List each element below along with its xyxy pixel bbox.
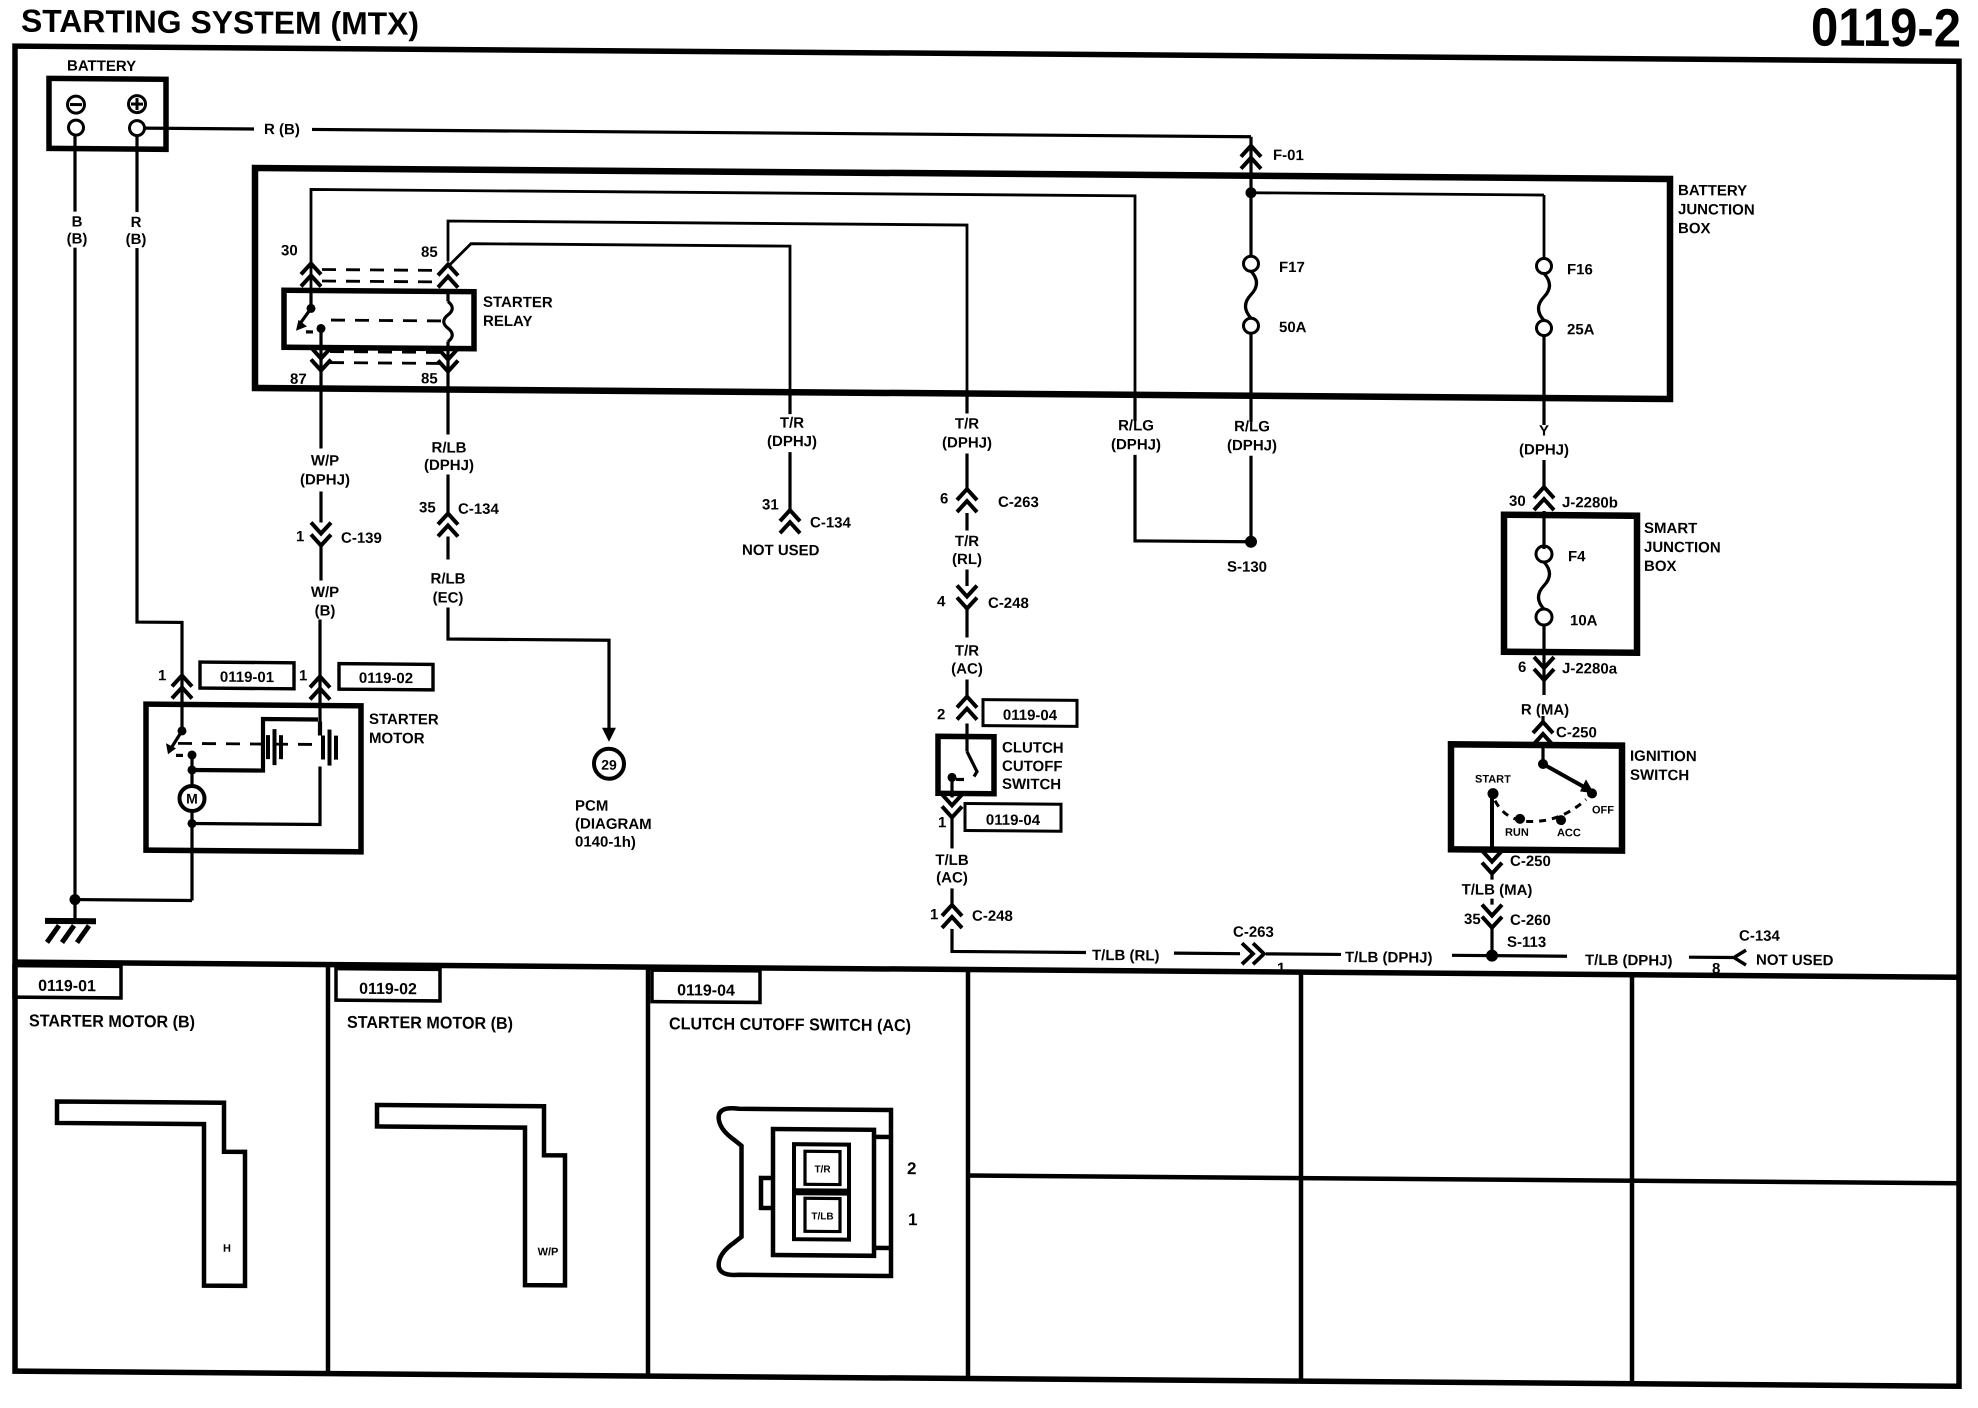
svg-text:T/R: T/R [955,642,979,659]
svg-text:0119-02: 0119-02 [359,670,413,687]
svg-text:(DPHJ): (DPHJ) [300,471,350,488]
svg-text:STARTER: STARTER [483,294,553,312]
svg-text:0119-04: 0119-04 [677,982,735,999]
wire C-139 to W/P (B) label [319,546,322,581]
svg-text:1: 1 [158,667,166,684]
svg-text:4: 4 [937,593,946,610]
connector view 0119-01: starter motor terminal [57,1101,245,1285]
wire into smart junction box [1542,511,1545,549]
svg-text:C-263: C-263 [1233,924,1274,941]
wire contact to motor branch [190,755,193,770]
svg-text:(AC): (AC) [951,660,983,677]
wire L1: relay pin30 feed to R/LG left drop [311,189,1135,394]
ignition START position [1488,788,1499,799]
battery negative terminal [68,96,85,113]
relay contact from pin 30 [309,290,312,308]
connector C-134 pin 31 (not used) [780,510,800,533]
pull-in winding bars [323,730,336,766]
svg-text:T/LB (DPHJ): T/LB (DPHJ) [1345,949,1432,967]
battery post (positive) [130,121,145,136]
connector right tabs [874,1135,891,1140]
connector inner body [773,1129,874,1256]
svg-text:RUN: RUN [1505,827,1529,839]
wire motor to ground exit [190,811,193,901]
svg-text:SWITCH: SWITCH [1630,767,1689,784]
ground junction node [70,894,81,905]
dashed connector lines below relay [330,350,440,354]
svg-text:IGNITION: IGNITION [1630,748,1697,766]
connector view 0119-02: starter motor terminal [377,1105,565,1285]
cavity T/LB outer [794,1193,849,1239]
relay coil [444,301,453,341]
svg-text:(B): (B) [315,602,336,619]
starter solenoid contact dot pin1 [178,726,187,735]
fuse F4 10A [1536,546,1598,629]
tab 0119-02 [336,969,440,1001]
svg-text:1: 1 [938,814,946,831]
wire label to C-248 pin 1 [950,888,953,905]
svg-text:STARTER: STARTER [369,711,439,729]
svg-text:Y: Y [1539,423,1549,440]
wire C-134 to R/LB (EC) label [446,536,449,559]
cavity T/R inner [805,1151,840,1184]
starter contact dash and dot [176,754,186,757]
svg-text:6: 6 [940,490,948,507]
svg-text:C-250: C-250 [1556,724,1597,741]
connector C-263 pin 1 (inline, pointing right) [1242,943,1264,964]
ignition ACC position [1556,815,1566,825]
svg-text:CLUTCH CUTOFF SWITCH (AC): CLUTCH CUTOFF SWITCH (AC) [669,1014,911,1035]
svg-text:R (MA): R (MA) [1521,701,1569,718]
svg-text:0119-01: 0119-01 [38,978,96,995]
wire branch down to fuse F16 [1543,195,1546,259]
grid row divider (right cells) [968,1176,1959,1184]
svg-text:F-01: F-01 [1273,147,1304,164]
clutch switch contact arm [967,752,977,777]
svg-text:PCM: PCM [575,797,608,814]
svg-text:(DIAGRAM: (DIAGRAM [575,815,652,833]
wire R/LB (DPHJ) below junction box [446,389,449,434]
wire down to T/LB run [952,929,1086,953]
svg-text:(B): (B) [126,231,147,248]
svg-text:31: 31 [762,496,779,513]
ignition pivot [1538,759,1548,769]
svg-text:C-263: C-263 [998,494,1039,511]
wire motor bottom to winding return [192,765,320,824]
wire drop to F-01 [1249,137,1252,177]
ground symbol [45,899,96,942]
svg-text:6: 6 [1518,659,1526,676]
svg-text:J-2280a: J-2280a [1562,660,1618,677]
PCM terminal circle 29 [594,749,624,779]
grid column divider 5 [1630,975,1635,1384]
motor M [180,786,205,811]
wire C-263 to T/R (RL) label [965,513,968,531]
wire label to C-134 pin 31 [788,452,791,510]
wire W/P (B) down to starter motor pin [318,619,321,676]
wire to R (MA) label [1542,680,1545,695]
svg-text:85: 85 [421,370,438,387]
connector-view grid top line [15,962,1959,977]
battery [49,57,166,149]
svg-text:C-250: C-250 [1510,853,1551,870]
svg-text:F16: F16 [1567,261,1593,278]
svg-text:M: M [186,790,198,806]
dashed connector lines above relay [322,268,440,272]
wire relay 85 to box bottom [446,348,449,389]
svg-text:(EC): (EC) [433,589,464,606]
svg-text:0119-2: 0119-2 [1811,0,1961,59]
svg-text:R: R [131,214,142,231]
wire to S-130 [1135,455,1251,542]
connector view 0119-04: clutch cutoff switch housing [719,1108,891,1276]
connector C-139 pin 1 [311,522,331,545]
splice S-113 [1486,950,1498,962]
svg-text:50A: 50A [1279,319,1307,336]
starter motor [146,704,361,852]
wire to T/LB (AC) label [950,817,953,848]
svg-text:(AC): (AC) [936,869,968,886]
svg-text:STARTER MOTOR (B): STARTER MOTOR (B) [347,1013,513,1033]
fuse F16 25A [1537,258,1595,338]
wire label to C-263 [965,454,968,490]
wire START down through box [1490,798,1494,852]
connector F-01 [1241,146,1261,169]
svg-text:F4: F4 [1568,548,1586,565]
wire F17 to box bottom (R/LG right) [1249,333,1252,396]
wire R/LG (DPHJ) right drop below box [1249,396,1252,422]
svg-text:1: 1 [299,667,307,684]
svg-text:J-2280b: J-2280b [1562,494,1618,511]
starter relay [284,290,474,348]
svg-text:T/LB (RL): T/LB (RL) [1092,947,1159,965]
svg-text:25A: 25A [1567,321,1595,338]
ignition rotor arm to OFF [1543,764,1583,786]
svg-text:NOT USED: NOT USED [742,542,820,560]
svg-text:BOX: BOX [1644,558,1677,575]
cavity T/R outer [794,1144,849,1190]
tab 0119-04 [652,970,760,1002]
svg-text:STARTER MOTOR (B): STARTER MOTOR (B) [29,1011,195,1031]
wire relay 87 to box bottom [319,348,322,389]
wire label to C-250 [1541,716,1544,722]
svg-text:RELAY: RELAY [483,313,532,330]
wire switch to lower 0119-04 connector [950,777,953,797]
svg-text:C-134: C-134 [1739,928,1781,945]
connector chevrons relay pin 30 [301,263,321,286]
svg-text:C-139: C-139 [341,530,382,547]
svg-text:STARTING SYSTEM (MTX): STARTING SYSTEM (MTX) [21,3,419,42]
svg-text:R/LG: R/LG [1118,417,1154,434]
svg-text:C-134: C-134 [810,514,852,531]
connector C-248 pin 4 [957,585,977,608]
svg-text:C-248: C-248 [972,908,1013,925]
wire to T/LB (MA) label [1490,874,1493,880]
svg-text:(DPHJ): (DPHJ) [1227,437,1277,454]
wire label to 0119-04 connector [965,680,968,700]
wire R (B) battery positive down to starter feed [135,135,138,212]
svg-text:C-260: C-260 [1510,912,1551,929]
svg-text:T/R: T/R [780,415,804,432]
svg-text:OFF: OFF [1592,804,1614,816]
0119-04 reference box (top) [983,700,1077,727]
svg-text:START: START [1475,774,1511,786]
wire C-248 to T/R (AC) label [965,609,968,638]
grid column divider 4 [1299,972,1304,1381]
svg-text:SMART: SMART [1644,520,1697,537]
starter solenoid contact arm [171,731,182,749]
tab 0119-01 [14,966,121,998]
wire T/R (DPHJ) second drop below box [965,394,968,414]
svg-text:B: B [72,214,83,231]
connector C-134 pin 35 [438,513,458,536]
cavity T/LB inner [805,1198,840,1231]
ignition switch [1451,744,1622,850]
svg-text:0140-1h): 0140-1h) [575,833,636,850]
battery junction box [255,168,1670,399]
wire L3: relay pin85 diagonal feed to T/R first drop [448,243,790,392]
ignition detent dashed arc [1495,799,1586,822]
svg-text:ACC: ACC [1557,827,1581,839]
fuse F17 50A [1244,256,1307,336]
wire L2: relay pin85 feed to T/R second drop [448,221,967,394]
svg-text:87: 87 [290,371,307,388]
svg-text:T/LB: T/LB [811,1211,833,1222]
wire label to C-134 not used fork [1689,956,1733,960]
svg-text:(DPHJ): (DPHJ) [1111,436,1161,453]
svg-text:(DPHJ): (DPHJ) [767,433,817,450]
grid column divider 3 [966,970,971,1379]
wire label to C-139 [319,492,322,523]
connector left notch [761,1178,773,1208]
svg-text:2: 2 [907,1159,916,1178]
battery positive terminal [129,96,146,113]
0119-02 reference box [339,664,433,690]
wire F16 to box bottom (Y) [1542,335,1545,398]
solenoid dashed actuation line [178,743,320,744]
svg-text:1: 1 [1277,960,1285,977]
connector 0119-02 pin 1 chevrons [310,676,330,699]
svg-text:(B): (B) [67,231,88,248]
connector C-250 (top) [1533,722,1553,745]
wire R/LB (EC) to PCM arrow [448,607,609,731]
svg-text:S-113: S-113 [1507,934,1546,951]
node motor bottom [188,819,197,828]
smart junction box [1504,515,1637,653]
svg-text:R/LG: R/LG [1234,418,1270,435]
svg-text:30: 30 [281,242,298,259]
wire label to C-134 [446,474,449,513]
connector chevrons relay pin 85 top [438,264,458,287]
svg-text:0119-04: 0119-04 [986,812,1041,829]
connector C-134 pin 8 fork (not used) [1734,950,1746,965]
wire label to C-248 [965,570,968,587]
wire pin2 into winding [318,721,322,735]
0119-01 reference box [200,662,294,689]
svg-text:JUNCTION: JUNCTION [1644,539,1721,557]
svg-text:W/P: W/P [311,452,339,469]
svg-text:30: 30 [1509,493,1526,510]
svg-text:0119-02: 0119-02 [359,981,417,998]
svg-text:T/R: T/R [814,1164,831,1175]
svg-text:C-134: C-134 [458,501,500,518]
svg-text:35: 35 [1464,911,1481,928]
connector chevrons relay pin 87 [311,347,331,370]
svg-text:85: 85 [421,244,438,261]
connector chevrons relay pin 85 bottom [438,348,458,371]
svg-text:0119-04: 0119-04 [1003,707,1058,724]
wire to T/LB (DPHJ) label [1266,952,1341,956]
wire label to S-113 [1452,954,1567,958]
svg-text:(DPHJ): (DPHJ) [1519,441,1569,458]
svg-text:W/P: W/P [538,1246,559,1258]
connector C-248 pin 1 [942,905,962,928]
connector C-260 pin 35 [1482,905,1502,928]
connector 0119-01 pin 1 chevrons [172,675,192,698]
splice S-130 [1245,536,1257,548]
svg-text:0119-01: 0119-01 [220,669,274,686]
svg-text:10A: 10A [1570,612,1598,629]
hold-in winding bars [268,729,281,765]
svg-text:T/LB (MA): T/LB (MA) [1462,881,1533,899]
grid column divider 1 [326,965,331,1374]
svg-text:CLUTCH: CLUTCH [1002,739,1064,756]
wire F4 to box bottom [1542,625,1545,652]
svg-text:F17: F17 [1279,259,1305,276]
grid column divider 2 [646,967,651,1376]
wire T/LB (RL) segment [1174,952,1240,956]
connector 0119-04 pin 2 [957,696,977,719]
connector J-2280b pin 30 [1534,487,1554,510]
ground wire from starter motor [75,898,192,902]
svg-text:T/LB: T/LB [935,852,968,869]
node: junction dot below F-01 [1246,187,1257,198]
svg-text:29: 29 [601,757,617,773]
svg-text:1: 1 [930,906,938,923]
svg-text:(RL): (RL) [952,551,982,568]
svg-text:R (B): R (B) [264,121,300,138]
wire R/LG (DPHJ) left drop below box [1133,395,1136,421]
wire down to S-130 splice [1249,456,1252,542]
ignition OFF position [1587,788,1597,798]
wire T/R (DPHJ) first drop below box [788,392,791,414]
arrowhead into PCM [602,728,616,742]
wire F-01 down to fuse F17 [1249,177,1252,257]
wire Y (DPHJ) below box [1542,398,1545,425]
wire into ignition switch [1541,746,1544,764]
wire down to splice S-113 [1490,928,1493,956]
clutch switch fixed contact dot [948,773,957,782]
connector J-2280a pin 6 [1542,652,1545,680]
svg-text:(DPHJ): (DPHJ) [424,457,474,474]
svg-text:35: 35 [419,499,436,516]
wire R (B) label to junction box drop [312,129,1251,136]
svg-text:MOTOR: MOTOR [369,730,425,747]
wire into clutch cutoff switch [965,724,968,752]
wire to motor [190,770,193,787]
svg-text:T/R: T/R [955,415,979,432]
wire label to C-260 [1490,899,1493,905]
svg-text:1: 1 [908,1210,917,1229]
svg-text:JUNCTION: JUNCTION [1678,201,1755,219]
wire R (B) from battery positive to F-01, segment left of label [144,127,254,131]
wire pin1 into starter motor [180,675,183,730]
svg-text:T/R: T/R [955,533,979,550]
svg-text:2: 2 [937,706,945,723]
svg-text:R/LB: R/LB [431,570,466,587]
wire B (B) from battery negative to ground [73,135,76,212]
wire W/P (DPHJ) below junction box [319,389,322,449]
svg-text:T/LB (DPHJ): T/LB (DPHJ) [1585,952,1672,970]
svg-text:BOX: BOX [1678,220,1711,237]
battery post (negative) [69,120,84,135]
clutch cutoff switch [938,736,994,793]
svg-text:1: 1 [296,528,304,545]
svg-text:W/P: W/P [311,584,339,601]
svg-text:(DPHJ): (DPHJ) [942,434,992,451]
svg-text:8: 8 [1712,960,1720,977]
ignition RUN position [1515,814,1525,824]
svg-text:C-248: C-248 [988,595,1029,612]
wire from junction dot to F16 branch [1251,193,1544,195]
wire label to J-2280b [1542,460,1545,487]
0119-04 reference box (bottom) [965,804,1061,832]
svg-text:R/LB: R/LB [432,439,467,456]
relay actuation dashed line [331,319,445,323]
connector 0119-04 pin 1 [942,794,962,817]
svg-text:BATTERY: BATTERY [67,58,136,76]
svg-text:BATTERY: BATTERY [1678,182,1747,200]
node: relay pin 87 contact dot [317,324,326,333]
svg-text:SWITCH: SWITCH [1002,776,1061,793]
svg-text:CUTOFF: CUTOFF [1002,758,1063,775]
svg-text:NOT USED: NOT USED [1756,952,1834,970]
svg-text:H: H [223,1243,231,1255]
connector C-263 pin 6 [957,489,977,512]
svg-text:S-130: S-130 [1227,559,1267,576]
wire pin2 into starter motor [318,676,321,721]
connector C-250 (bottom) [1482,851,1502,874]
wire to hold-in winding [192,718,318,770]
